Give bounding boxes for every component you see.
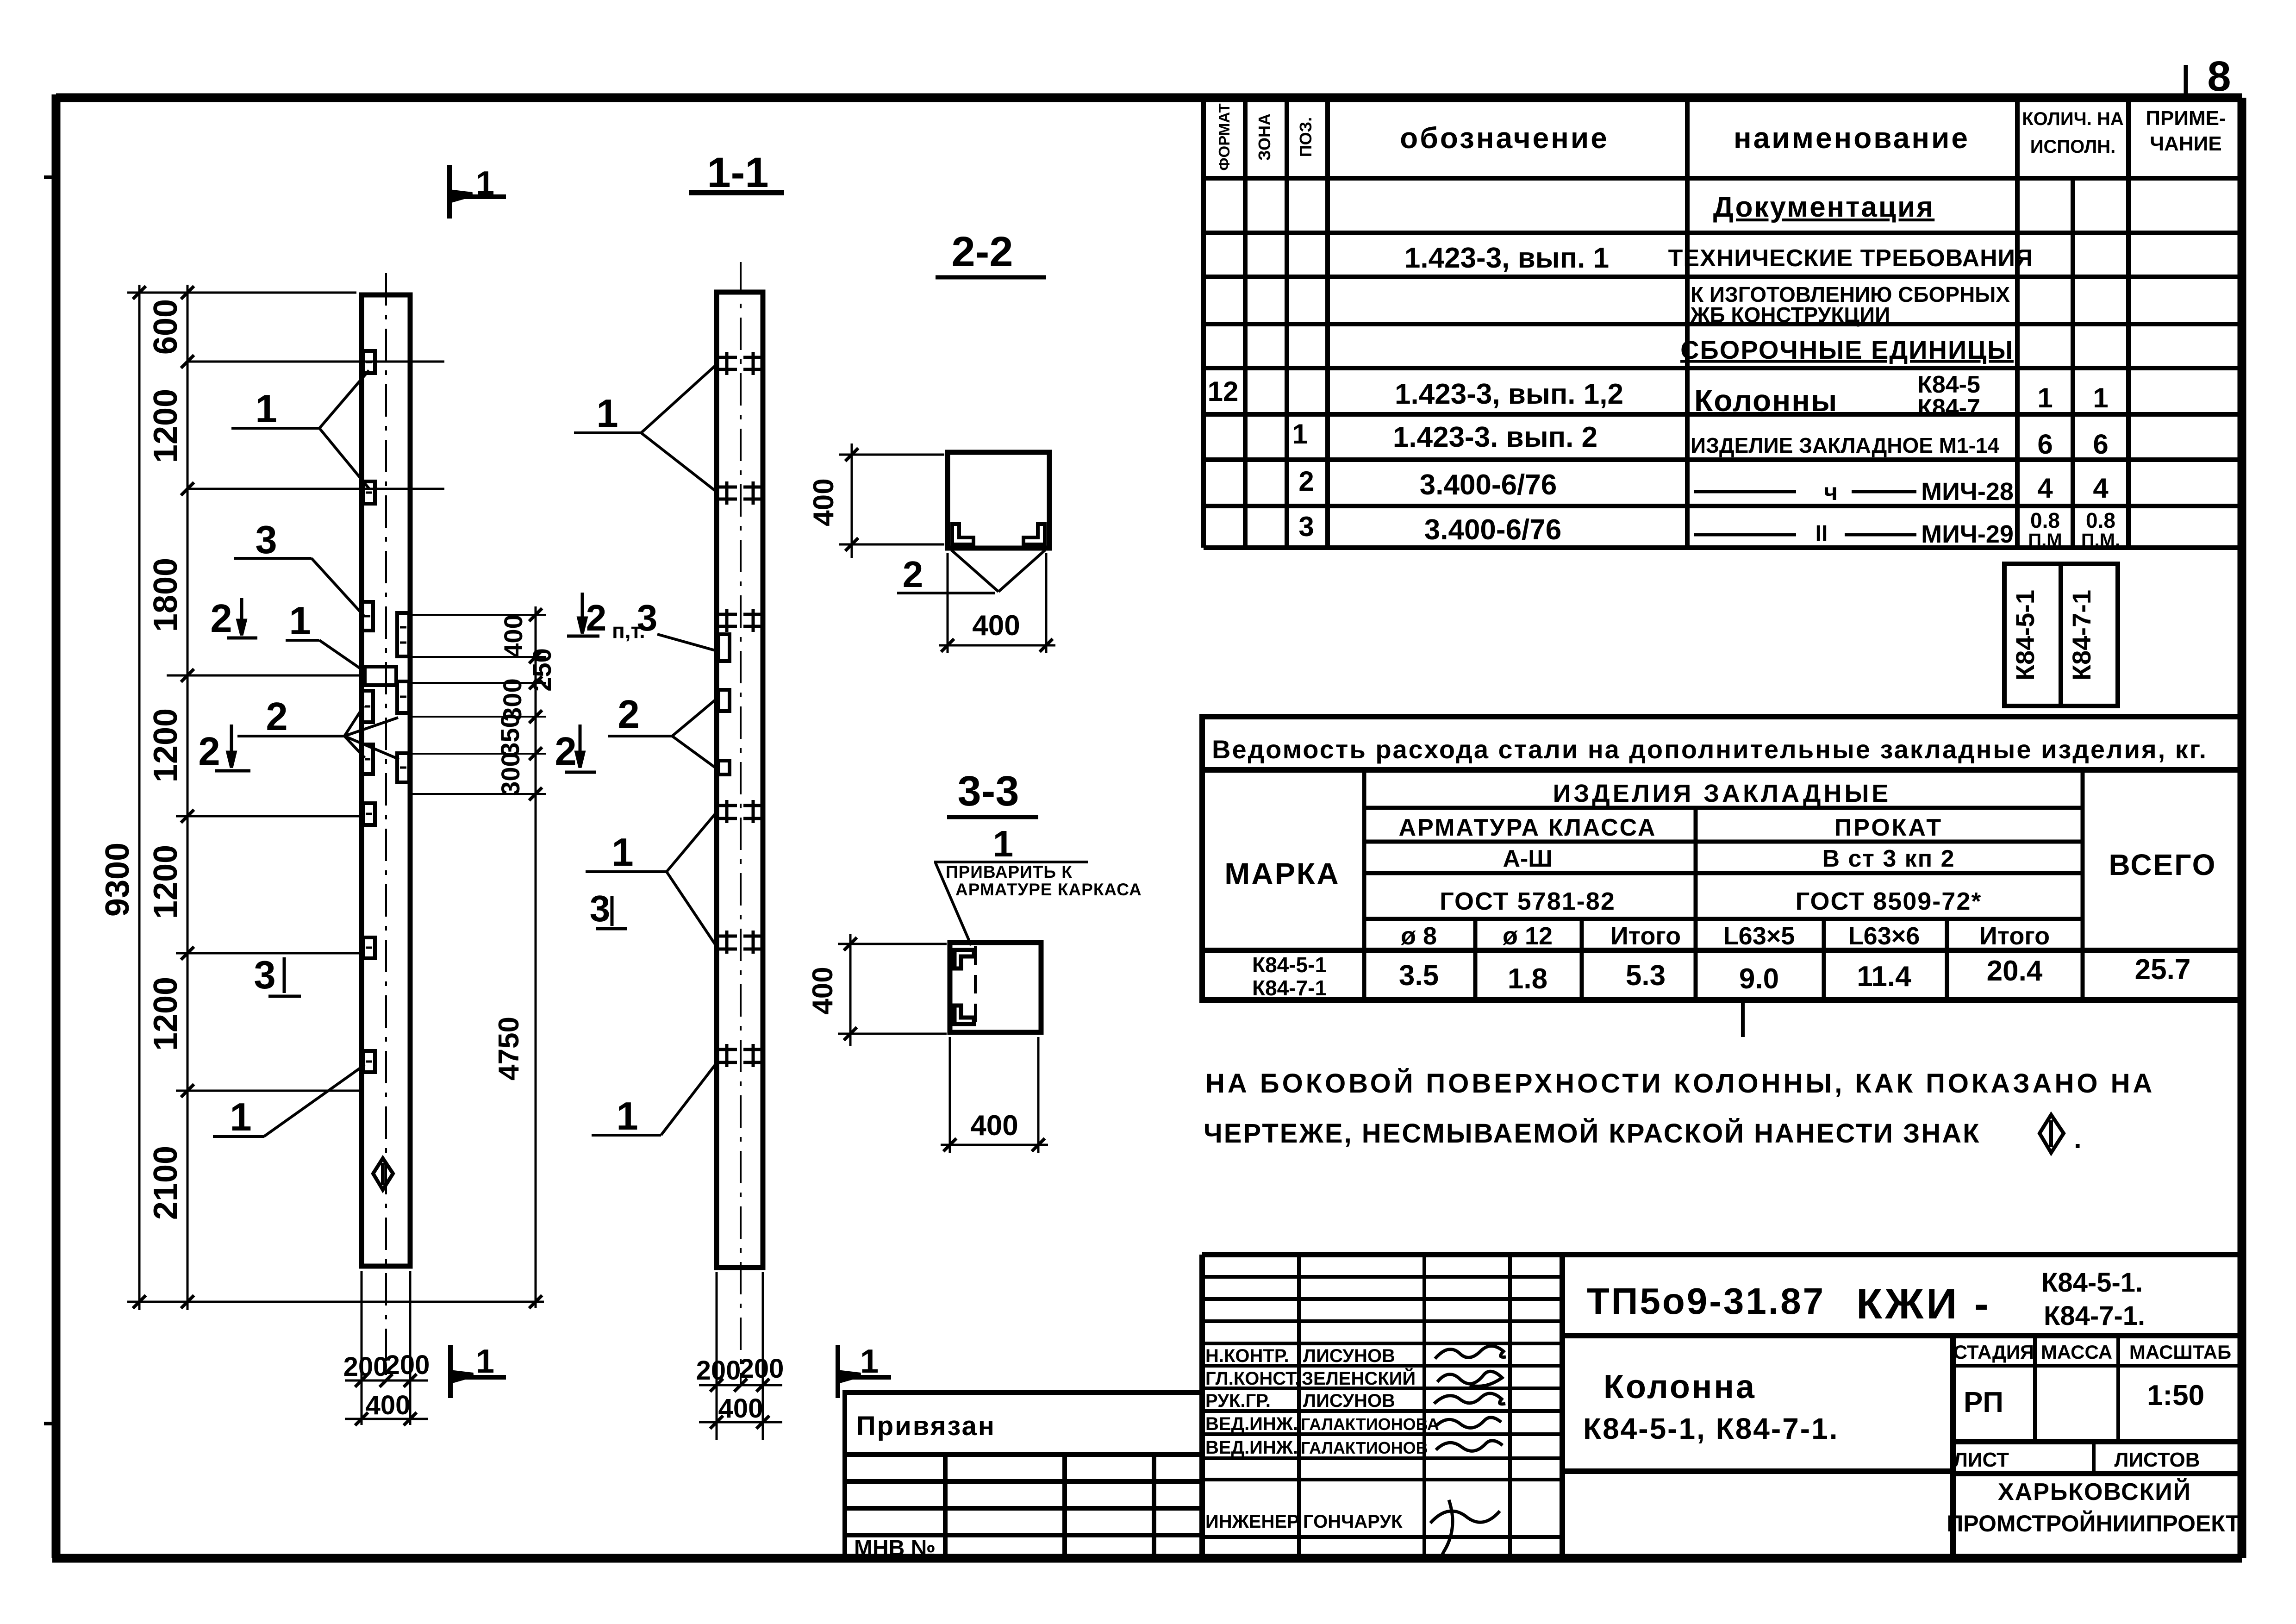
svg-text:РП: РП <box>1964 1387 2003 1418</box>
callout 2 (column 2) <box>608 700 715 768</box>
svg-text:Привязан: Привязан <box>856 1411 996 1441</box>
column 1 bottom dimensions <box>345 1271 428 1425</box>
svg-text:2: 2 <box>210 597 232 641</box>
svg-text:ЧЕРТЕЖЕ, НЕСМЫВАЕМОЙ КРАСКОЙ: ЧЕРТЕЖЕ, НЕСМЫВАЕМОЙ КРАСКОЙ НАНЕСТИ ЗНА… <box>1204 1118 1981 1149</box>
callout 1 with welding note <box>934 862 1088 945</box>
svg-text:ø 8: ø 8 <box>1401 922 1437 950</box>
svg-text:ВСЕГО: ВСЕГО <box>2109 848 2217 881</box>
svg-text:СБОРОЧНЫЕ ЕДИНИЦЫ: СБОРОЧНЫЕ ЕДИНИЦЫ <box>1680 335 2014 364</box>
callout 1 (top, column 1) <box>231 370 369 488</box>
svg-text:200: 200 <box>739 1354 784 1384</box>
svg-text:Итого: Итого <box>1610 922 1681 950</box>
svg-text:ч: ч <box>1824 479 1838 506</box>
svg-text:МАРКА: МАРКА <box>1224 856 1340 891</box>
svg-text:ИНЖЕНЕР: ИНЖЕНЕР <box>1205 1512 1299 1532</box>
svg-text:ПРИМЕ-: ПРИМЕ- <box>2146 107 2226 130</box>
svg-text:400: 400 <box>972 610 1020 642</box>
svg-text:1200: 1200 <box>147 389 184 463</box>
svg-text:А-Ш: А-Ш <box>1503 845 1552 872</box>
svg-text:ГАЛАКТИОНОВА: ГАЛАКТИОНОВА <box>1301 1415 1439 1434</box>
svg-text:Колонны: Колонны <box>1694 383 1838 418</box>
svg-text:наименование: наименование <box>1734 121 1970 155</box>
svg-text:2: 2 <box>266 695 287 739</box>
middle dimension line (right of column 1) <box>535 606 537 1308</box>
section cut mark 1 (bottom of column 2) <box>838 1345 891 1398</box>
sheet number 8 <box>2184 65 2188 98</box>
svg-text:1: 1 <box>616 1094 638 1138</box>
svg-text:РУК.ГР.: РУК.ГР. <box>1205 1391 1271 1411</box>
callout 1 (middle, column 1) <box>286 640 366 672</box>
svg-text:3: 3 <box>1298 511 1314 542</box>
svg-text:СТАДИЯ: СТАДИЯ <box>1953 1341 2034 1363</box>
svg-text:400: 400 <box>808 478 840 526</box>
svg-text:400: 400 <box>366 1390 411 1420</box>
svg-text:АРМАТУРА КЛАССА: АРМАТУРА КЛАССА <box>1399 814 1657 841</box>
svg-text:400: 400 <box>970 1110 1018 1142</box>
svg-text:ø 12: ø 12 <box>1503 922 1553 950</box>
callout 1 (middle, column 2) <box>586 814 715 944</box>
column 2 bottom dimensions <box>699 1272 782 1440</box>
column 2 centerline <box>740 262 742 1384</box>
svg-text:12: 12 <box>1208 376 1239 407</box>
svg-text:600: 600 <box>147 299 184 355</box>
svg-text:К84-7-1: К84-7-1 <box>2067 590 2096 681</box>
svg-text:Н.КОНТР.: Н.КОНТР. <box>1205 1346 1289 1366</box>
column 2 plate pairs (T marks) <box>719 352 761 1067</box>
privyazan table (bottom left of stamp) <box>845 1393 1202 1558</box>
spec table rows content <box>1208 191 2121 550</box>
svg-text:К84-5-1, К84-7-1.: К84-5-1, К84-7-1. <box>1583 1412 1839 1445</box>
svg-text:ЛИСТОВ: ЛИСТОВ <box>2115 1449 2200 1471</box>
svg-text:1: 1 <box>230 1095 251 1139</box>
left dimension chain verticals <box>139 285 187 1310</box>
svg-text:20.4: 20.4 <box>1987 955 2043 987</box>
svg-text:3-3: 3-3 <box>958 768 1019 815</box>
svg-text:250: 250 <box>527 648 556 691</box>
svg-text:25.7: 25.7 <box>2135 954 2191 986</box>
svg-text:.: . <box>2074 1123 2082 1154</box>
spec table headers <box>1216 103 2226 170</box>
svg-text:1: 1 <box>255 387 277 431</box>
section 2-2 bottom dim 400 <box>939 553 1055 653</box>
svg-text:ЛИСУНОВ: ЛИСУНОВ <box>1303 1391 1395 1411</box>
svg-text:К84-5-1: К84-5-1 <box>1252 953 1327 977</box>
svg-text:ГОСТ 8509-72*: ГОСТ 8509-72* <box>1796 887 1982 915</box>
title block (bottom right stamp) <box>1202 1255 2242 1558</box>
svg-text:обозначение: обозначение <box>1400 121 1609 155</box>
svg-text:ПРИВАРИТЬ К: ПРИВАРИТЬ К <box>946 862 1073 881</box>
svg-text:ПОЗ.: ПОЗ. <box>1296 117 1315 157</box>
specification table (top right) <box>1204 98 2242 548</box>
section mark 3 (column 2) <box>596 896 627 929</box>
svg-text:2100: 2100 <box>147 1146 184 1220</box>
svg-text:МАССА: МАССА <box>2041 1341 2112 1363</box>
svg-text:ТЕХНИЧЕСКИЕ ТРЕБОВАНИЯ: ТЕХНИЧЕСКИЕ ТРЕБОВАНИЯ <box>1668 245 2034 272</box>
svg-text:ГЛ.КОНСТ.: ГЛ.КОНСТ. <box>1205 1368 1300 1389</box>
stage / mass / scale <box>1947 1341 2240 1537</box>
callout 1 (top, column 2) <box>574 366 715 491</box>
callout 1 (bottom, column 1) <box>213 1065 365 1137</box>
fold tick marks on left border <box>44 177 56 1424</box>
svg-text:200: 200 <box>343 1352 388 1382</box>
section 2-2 left dim 400 <box>839 443 944 558</box>
svg-text:400: 400 <box>718 1393 763 1424</box>
svg-text:КЖИ -: КЖИ - <box>1856 1280 1991 1328</box>
callout 2 with four leaders (column 1) <box>237 706 399 759</box>
section cut mark 1 (bottom of column 1) <box>450 1345 506 1398</box>
svg-text:200: 200 <box>385 1350 430 1380</box>
section 3-3 bottom dim 400 <box>941 1037 1048 1153</box>
svg-text:4: 4 <box>2093 473 2109 504</box>
svg-text:400: 400 <box>807 967 839 1014</box>
svg-text:1: 1 <box>2093 382 2108 413</box>
svg-text:ЗЕЛЕНСКИЙ: ЗЕЛЕНСКИЙ <box>1302 1368 1416 1389</box>
svg-text:1-1: 1-1 <box>707 149 769 196</box>
column 1 centerline <box>385 273 387 1380</box>
svg-text:1:50: 1:50 <box>2147 1380 2204 1412</box>
svg-text:3.5: 3.5 <box>1399 960 1439 992</box>
svg-text:ИЗДЕЛИЕ ЗАКЛАДНОЕ М1-14: ИЗДЕЛИЕ ЗАКЛАДНОЕ М1-14 <box>1691 433 1999 457</box>
svg-text:ЖБ КОНСТРУКЦИИ: ЖБ КОНСТРУКЦИИ <box>1690 303 1890 327</box>
paint diamond mark <box>2040 1115 2064 1153</box>
svg-text:1.423-3. вып. 2: 1.423-3. вып. 2 <box>1393 421 1597 453</box>
column 1 embedded plates, left edge <box>361 351 396 1072</box>
svg-text:МНВ №: МНВ № <box>854 1536 936 1561</box>
svg-text:3: 3 <box>254 953 275 997</box>
main designation TP 509-31.87 KZhI <box>1587 1268 2145 1331</box>
svg-text:L63×6: L63×6 <box>1848 922 1920 950</box>
svg-text:1200: 1200 <box>147 845 184 919</box>
svg-text:ГОСТ 5781-82: ГОСТ 5781-82 <box>1440 887 1616 915</box>
svg-text:МИЧ-29: МИЧ-29 <box>1921 520 2014 548</box>
svg-text:2: 2 <box>586 597 607 638</box>
drawing name <box>1583 1368 1839 1445</box>
svg-text:1.8: 1.8 <box>1508 963 1547 995</box>
svg-text:КОЛИЧ. НА: КОЛИЧ. НА <box>2022 109 2123 129</box>
inner corner angles 2-2 <box>952 524 1045 544</box>
svg-text:300: 300 <box>496 752 525 795</box>
svg-text:1800: 1800 <box>147 558 184 632</box>
section 3-3 left dim 400 <box>838 934 947 1046</box>
callout 1 (bottom, column 2) <box>592 1065 715 1135</box>
section 2-2 weld V and callout 2 <box>897 550 1045 593</box>
rotated execution labels K84-5-1 / K84-7-1 <box>2004 564 2118 706</box>
svg-text:ЛИСУНОВ: ЛИСУНОВ <box>1303 1346 1395 1366</box>
svg-text:1: 1 <box>993 823 1014 864</box>
svg-text:8: 8 <box>2207 53 2231 100</box>
svg-text:К84-5-1: К84-5-1 <box>2010 590 2040 681</box>
svg-text:ПРОКАТ: ПРОКАТ <box>1834 814 1943 841</box>
svg-text:6: 6 <box>2037 429 2053 460</box>
title block signature rows <box>1205 1346 1439 1532</box>
section cut mark 1 (top) <box>449 165 506 219</box>
svg-text:ЛИСТ: ЛИСТ <box>1953 1449 2009 1471</box>
svg-text:1200: 1200 <box>147 977 184 1051</box>
svg-text:НА БОКОВОЙ ПОВЕРХНОСТИ КОЛО: НА БОКОВОЙ ПОВЕРХНОСТИ КОЛОННЫ, КАК ПОКА… <box>1205 1068 2155 1099</box>
svg-text:9.0: 9.0 <box>1739 963 1779 995</box>
dimension labels (left chain) <box>99 299 184 1220</box>
svg-text:400: 400 <box>499 614 528 657</box>
svg-text:Итого: Итого <box>1979 922 2050 950</box>
section 2-2 square <box>948 452 1049 548</box>
svg-text:4: 4 <box>2037 473 2053 504</box>
svg-text:Колонна: Колонна <box>1603 1368 1756 1405</box>
svg-text:ИСПОЛН.: ИСПОЛН. <box>2030 137 2116 157</box>
svg-text:1.423-3, вып. 1: 1.423-3, вып. 1 <box>1404 242 1609 274</box>
svg-text:К84-7-1.: К84-7-1. <box>2044 1301 2145 1331</box>
svg-text:3: 3 <box>255 518 277 562</box>
svg-text:1: 1 <box>596 392 618 436</box>
svg-text:2: 2 <box>903 554 923 595</box>
svg-text:9300: 9300 <box>99 843 136 917</box>
svg-text:5.3: 5.3 <box>1626 960 1666 992</box>
svg-text:ФОРМАТ: ФОРМАТ <box>1216 103 1233 170</box>
svg-text:ТП5о9-31.87: ТП5о9-31.87 <box>1587 1280 1825 1322</box>
svg-text:2-2: 2-2 <box>952 228 1013 275</box>
plate inner marks col1 <box>364 362 406 1062</box>
svg-text:ХАРЬКОВСКИЙ: ХАРЬКОВСКИЙ <box>1998 1478 2191 1505</box>
note text about paint mark <box>1204 1068 2155 1154</box>
svg-text:L63×5: L63×5 <box>1723 922 1795 950</box>
svg-text:1: 1 <box>611 831 633 874</box>
svg-text:11.4: 11.4 <box>1857 961 1911 993</box>
svg-text:1: 1 <box>860 1343 879 1380</box>
svg-text:К84-7: К84-7 <box>1917 394 1980 421</box>
svg-text:3.400-6/76: 3.400-6/76 <box>1420 469 1557 501</box>
svg-text:ГОНЧАРУК: ГОНЧАРУК <box>1303 1512 1403 1532</box>
svg-text:350: 350 <box>495 713 524 756</box>
svg-text:АРМАТУРЕ КАРКАСА: АРМАТУРЕ КАРКАСА <box>955 880 1142 899</box>
vedomost texts <box>1212 735 2216 1000</box>
section mark 3 (column 1) <box>268 957 301 996</box>
svg-text:200: 200 <box>696 1355 741 1386</box>
svg-text:3.400-6/76: 3.400-6/76 <box>1424 514 1561 546</box>
column 1 body <box>362 295 410 1266</box>
svg-text:2: 2 <box>618 693 639 737</box>
dimension slash ticks <box>133 286 194 1308</box>
svg-text:ЗОНА: ЗОНА <box>1255 113 1274 161</box>
svg-text:4750: 4750 <box>493 1017 525 1081</box>
svg-text:0.8: 0.8 <box>2030 508 2060 532</box>
svg-text:ВЕД.ИНЖ.: ВЕД.ИНЖ. <box>1205 1414 1298 1434</box>
callout 3 (column 1) <box>234 558 364 616</box>
section mark 2 (lower, column 1) <box>215 725 250 771</box>
column 2 single plates (left edge) <box>718 634 730 775</box>
svg-text:0.8: 0.8 <box>2086 508 2115 532</box>
svg-text:3: 3 <box>637 597 658 638</box>
steel consumption table (vedomost) <box>1202 717 2240 1000</box>
svg-text:ВЕД.ИНЖ.: ВЕД.ИНЖ. <box>1205 1437 1298 1458</box>
svg-text:П.М: П.М <box>2028 530 2062 550</box>
svg-text:П.М.: П.М. <box>2081 530 2120 550</box>
svg-text:1200: 1200 <box>147 708 184 782</box>
svg-text:В ст 3 кп 2: В ст 3 кп 2 <box>1822 845 1955 872</box>
svg-text:3: 3 <box>590 888 611 929</box>
svg-text:ГАЛАКТИОНОВ: ГАЛАКТИОНОВ <box>1301 1438 1428 1457</box>
section mark 2 p.t. + callout 3 (column 2) <box>567 593 599 636</box>
dimension tick lines <box>127 293 544 1302</box>
svg-text:МИЧ-28: МИЧ-28 <box>1921 478 2014 506</box>
section 3-3 square <box>950 943 1041 1032</box>
svg-text:II: II <box>1816 521 1828 546</box>
column 1 embedded plates, right edge <box>397 613 409 782</box>
svg-text:2: 2 <box>1298 466 1314 497</box>
signatures (squiggles) <box>1430 1346 1506 1560</box>
section mark 2 (upper, column 1) <box>227 598 257 638</box>
svg-text:2: 2 <box>198 730 220 774</box>
paint mark diamond on column 1 <box>373 1158 393 1190</box>
column 2 body <box>717 292 763 1268</box>
svg-text:2: 2 <box>555 730 576 774</box>
svg-text:Ведомость расхода стали на: Ведомость расхода стали на дополнительны… <box>1212 735 2208 764</box>
svg-text:МАСШТАБ: МАСШТАБ <box>2129 1341 2231 1363</box>
svg-text:ЧАНИЕ: ЧАНИЕ <box>2150 132 2221 155</box>
svg-text:К84-7-1: К84-7-1 <box>1252 976 1327 1000</box>
svg-text:1.423-3, вып. 1,2: 1.423-3, вып. 1,2 <box>1395 378 1623 410</box>
svg-text:Документация: Документация <box>1713 191 1935 223</box>
section mark 2 (column 2) <box>565 725 596 772</box>
svg-text:1: 1 <box>1292 418 1307 450</box>
svg-text:1: 1 <box>2037 382 2053 413</box>
svg-text:1: 1 <box>289 599 311 643</box>
svg-text:К84-5-1.: К84-5-1. <box>2041 1268 2143 1298</box>
dashed rebar line + angles 3-3 <box>974 946 977 1030</box>
svg-text:1: 1 <box>476 165 494 202</box>
svg-text:ПРОМСТРОЙНИИПРОЕКТ: ПРОМСТРОЙНИИПРОЕКТ <box>1947 1510 2240 1537</box>
svg-text:6: 6 <box>2093 429 2108 460</box>
svg-text:1: 1 <box>476 1343 494 1380</box>
middle fold mark below vedomost <box>1741 1000 1745 1037</box>
svg-text:ИЗДЕЛИЯ ЗАКЛАДНЫЕ: ИЗДЕЛИЯ ЗАКЛАДНЫЕ <box>1553 780 1891 807</box>
